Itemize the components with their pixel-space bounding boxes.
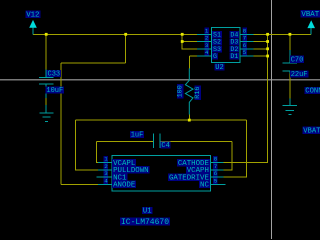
- svg-text:5: 5: [243, 49, 247, 56]
- svg-text:D3: D3: [230, 39, 238, 46]
- U1 pin name VCAPL: [112, 159, 136, 166]
- U2 pin 1 number: [204, 28, 209, 34]
- U2 pin name G: [212, 53, 218, 60]
- wire net V12: power symbol to U2 S1 pin 1: [33, 33, 197, 35]
- svg-text:D4: D4: [230, 32, 238, 39]
- U2 pin name S2: [212, 38, 222, 45]
- svg-text:5: 5: [214, 178, 218, 185]
- svg-text:3: 3: [104, 170, 108, 177]
- wire VBAT branch down to C70: [289, 34, 291, 50]
- svg-text:3: 3: [205, 42, 209, 49]
- ground symbol for C70: [283, 99, 298, 115]
- U2 pin 3 number: [204, 42, 209, 48]
- capacitor C4: [153, 134, 160, 148]
- svg-text:VBAT: VBAT: [303, 127, 320, 135]
- wire gate rail left down to PULLDOWN: [74, 120, 76, 170]
- refdes label U1: [142, 207, 152, 214]
- svg-text:IC-LM74670: IC-LM74670: [121, 218, 169, 227]
- svg-text:CONN: CONN: [305, 88, 320, 96]
- svg-text:C70: C70: [291, 56, 304, 64]
- wire into U1 VCAPH pin 7: [223, 169, 232, 171]
- svg-text:C33: C33: [48, 70, 61, 78]
- U1 pin 1 stub: [98, 162, 112, 164]
- svg-text:V12: V12: [26, 11, 39, 19]
- wire to U2 S3 pin 3: [182, 48, 197, 50]
- wire V12 branch down at x=126: [125, 34, 127, 63]
- wire into U1 PULLDOWN pin 2: [75, 169, 98, 171]
- power symbol V12 arrow: [29, 20, 37, 34]
- wire down to VCAPL: [95, 141, 97, 163]
- U1 pin 3 stub: [97, 176, 113, 178]
- U1 pin name CATHODE: [177, 159, 210, 166]
- U2 pin 3 stub: [197, 48, 211, 50]
- svg-text:VBAT: VBAT: [301, 11, 319, 19]
- value label 22uF: [290, 71, 309, 78]
- net label VBAT top: [301, 10, 320, 17]
- U2 pin name D3: [230, 38, 240, 45]
- wire gate rail right down to GATEDRIVE: [246, 120, 248, 177]
- wire V12 branch down to C33: [45, 34, 47, 69]
- junction D3 tap: [266, 40, 269, 43]
- svg-text:1: 1: [104, 156, 108, 163]
- IC U2 quad MOSFET body: [211, 27, 240, 62]
- junction D2 tap: [266, 47, 269, 50]
- svg-text:7: 7: [243, 35, 247, 42]
- svg-text:7: 7: [214, 163, 218, 170]
- wire U2 D1 pin 5 to riser: [254, 55, 268, 57]
- U1 pin 4 number: [104, 178, 109, 184]
- U2 pin name S1: [212, 31, 222, 38]
- svg-text:8: 8: [214, 156, 218, 163]
- svg-text:22uF: 22uF: [291, 71, 308, 79]
- svg-text:ANODE: ANODE: [113, 182, 136, 190]
- wire U2 D3 pin 7 to riser: [254, 41, 268, 43]
- wire VBAT riser vertical: [267, 34, 269, 163]
- U2 pin 8 stub: [240, 33, 254, 35]
- svg-text:G: G: [213, 53, 217, 60]
- wire to U2 S2 pin 2: [182, 41, 197, 43]
- value label 100: [177, 84, 183, 99]
- net label V12: [25, 11, 40, 18]
- U2 pin name D4: [230, 31, 240, 38]
- wire U2 D2 pin 6 to riser: [254, 48, 268, 50]
- horizontal gray divider line: [0, 79, 320, 81]
- value label 1uF: [130, 131, 144, 138]
- U1 pin 3 number: [104, 170, 109, 176]
- junction R16/gate rail: [188, 119, 191, 122]
- svg-text:4: 4: [104, 178, 108, 185]
- U1 pin 8 number: [213, 156, 218, 162]
- U1 pin 6 stub: [211, 176, 224, 178]
- wire into U1 GATEDRIVE pin 6: [223, 176, 246, 178]
- wire gate rail horizontal: [75, 119, 246, 121]
- wire C70 bottom to ground: [289, 74, 291, 99]
- U2 pin 5 number: [242, 49, 247, 55]
- junction VBAT riser top: [266, 33, 269, 36]
- wire CATHODE pin 8 to VBAT riser: [223, 162, 267, 164]
- U1 pin 4 stub: [98, 183, 112, 185]
- U2 pin name D2: [230, 46, 240, 53]
- U2 pin 6 number: [242, 42, 247, 48]
- ground symbol for C33: [39, 105, 53, 121]
- U1 pin 5 stub: [211, 183, 226, 185]
- svg-text:8: 8: [243, 28, 247, 35]
- U1 pin 1 number: [104, 156, 109, 162]
- svg-text:10uF: 10uF: [46, 87, 63, 95]
- svg-text:1uF: 1uF: [131, 132, 144, 140]
- wire C33 bottom to ground: [45, 98, 47, 105]
- U1 pin 7 stub: [211, 169, 224, 171]
- U1 pin name ANODE: [112, 181, 136, 188]
- U1 pin name VCAPH: [186, 166, 210, 173]
- U1 pin name GATEDRIVE: [168, 173, 210, 180]
- resistor R16: [185, 68, 193, 114]
- svg-text:1: 1: [205, 28, 209, 35]
- wire S-tie vertical x=182: [181, 34, 183, 49]
- U1 pin 8 stub: [211, 162, 224, 164]
- U2 pin 8 number: [242, 28, 247, 34]
- U1 pin 6 number: [213, 170, 218, 176]
- wire R16 bottom to gate rail: [188, 115, 190, 121]
- U2 pin 2 number: [204, 35, 209, 41]
- U2 pin 2 stub: [197, 41, 211, 43]
- U2 pin 7 stub: [240, 41, 254, 43]
- part label IC-LM74670: [120, 218, 170, 226]
- U2 pin 1 stub: [197, 33, 211, 35]
- junction D1 tap: [266, 55, 269, 58]
- wire down left side to ANODE row: [60, 63, 62, 185]
- refdes label C70: [290, 56, 304, 63]
- svg-text:6: 6: [214, 170, 218, 177]
- svg-text:U2: U2: [215, 64, 223, 72]
- junction V12/S-tie: [181, 33, 184, 36]
- svg-text:NC: NC: [200, 182, 209, 190]
- wire into U1 ANODE pin 4: [61, 183, 98, 185]
- wire G down to R16 top: [188, 56, 190, 68]
- U2 pin name D1: [230, 53, 240, 60]
- svg-text:6: 6: [243, 42, 247, 49]
- svg-text:S1: S1: [213, 32, 221, 39]
- power symbol VBAT arrow top right: [307, 20, 315, 34]
- capacitor C70: [283, 50, 297, 74]
- svg-text:D2: D2: [230, 46, 238, 53]
- net label CONN (clipped at right edge): [304, 87, 320, 94]
- U2 pin 7 number: [242, 35, 247, 41]
- refdes label R16: [195, 85, 201, 100]
- U2 pin 5 stub: [240, 55, 254, 57]
- junction S2 tap: [181, 40, 184, 43]
- U2 pin 6 stub: [240, 48, 254, 50]
- U2 pin name S3: [212, 46, 222, 53]
- wire C4 left segment: [96, 140, 153, 142]
- U2 pin 4 stub: [197, 55, 211, 57]
- U1 pin 7 number: [213, 163, 218, 169]
- U1 pin name NC: [199, 181, 210, 188]
- svg-text:2: 2: [205, 35, 209, 42]
- svg-text:R16: R16: [194, 86, 202, 98]
- refdes label C33: [47, 70, 61, 77]
- svg-text:S3: S3: [213, 46, 221, 53]
- junction VBAT/C70 branch: [289, 33, 292, 36]
- U1 pin 5 number: [213, 178, 218, 184]
- wire U2 D4 pin 8 row to VBAT symbol: [254, 33, 312, 35]
- svg-text:U1: U1: [143, 208, 152, 216]
- svg-text:D1: D1: [230, 53, 238, 60]
- junction V12/C33 branch: [45, 33, 48, 36]
- svg-text:2: 2: [104, 163, 108, 170]
- value label 10uF: [46, 87, 65, 94]
- U1 pin name PULLDOWN: [112, 166, 149, 173]
- svg-text:S2: S2: [213, 39, 221, 46]
- U1 pin name NC1: [112, 173, 127, 180]
- wire jog left toward ANODE: [61, 62, 126, 64]
- wire from U2 G pin 4: [189, 55, 197, 57]
- U1 pin 2 number: [104, 163, 109, 169]
- U1 pin 2 stub: [98, 169, 112, 171]
- junction V12/ANODE branch: [124, 33, 127, 36]
- vertical gray divider line: [271, 0, 273, 239]
- IC U1 LM74670 body: [112, 156, 211, 191]
- capacitor C33: [39, 69, 53, 98]
- net label VBAT right edge: [302, 127, 320, 134]
- refdes label C4: [161, 141, 171, 148]
- svg-text:4: 4: [205, 49, 209, 56]
- wire C4 right segment: [161, 140, 232, 142]
- U2 pin 4 number: [204, 49, 209, 55]
- svg-text:100: 100: [177, 85, 185, 97]
- svg-text:C4: C4: [161, 142, 169, 150]
- refdes label U2: [214, 63, 224, 70]
- wire stub into U1 VCAPL pin 1: [96, 162, 98, 164]
- wire down to VCAPH: [231, 141, 233, 170]
